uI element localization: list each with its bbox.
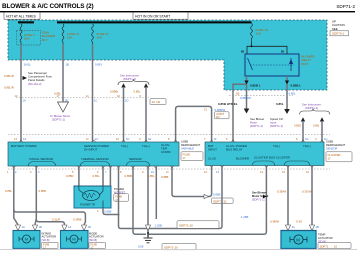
wire from fuse F1 down bbox=[20, 45, 22, 142]
connector label box mid bbox=[215, 112, 230, 119]
svg-text:[SDP71-1]: [SDP71-1] bbox=[250, 124, 263, 128]
wires module B to actuator 3 bbox=[287, 166, 289, 225]
svg-text:0.85L/R: 0.85L/R bbox=[4, 74, 14, 78]
svg-text:HOT AT ALL TIMES: HOT AT ALL TIMES bbox=[6, 14, 37, 18]
svg-text:BOX: BOX bbox=[302, 62, 308, 66]
svg-text:0.85L: 0.85L bbox=[276, 102, 284, 106]
relay leg left with branch bbox=[233, 76, 247, 142]
svg-text:1D: 1D bbox=[216, 115, 220, 119]
svg-text:5V INPUT: 5V INPUT bbox=[84, 148, 98, 152]
intake actuator 1 (motor M1) bbox=[13, 231, 40, 249]
svg-text:M: M bbox=[296, 237, 300, 242]
svg-text:0.85B: 0.85B bbox=[326, 140, 333, 144]
svg-text:0.85B L: 0.85B L bbox=[250, 84, 261, 88]
footer rule bbox=[0, 249, 357, 251]
svg-text:1B: 1B bbox=[39, 225, 42, 229]
svg-text:0.85L: 0.85L bbox=[134, 90, 141, 94]
svg-text:1C: 1C bbox=[94, 99, 97, 103]
svg-text:1C: 1C bbox=[95, 137, 98, 141]
svg-text:REFRIGERANT: REFRIGERANT bbox=[326, 143, 346, 147]
relay U1 (blower relay) bbox=[245, 54, 299, 76]
svg-text:0.85B: 0.85B bbox=[125, 174, 132, 178]
off-page arrow down (right leg) bbox=[284, 109, 290, 114]
relay leg right bbox=[286, 76, 288, 110]
svg-text:0.85Y: 0.85Y bbox=[95, 63, 102, 67]
module B braces bbox=[252, 161, 275, 166]
svg-text:VARIABLE: VARIABLE bbox=[181, 147, 194, 151]
ground wire from module B bbox=[148, 166, 266, 234]
bus bar segment B bbox=[57, 21, 252, 23]
wire module A to ground bus bbox=[133, 166, 146, 234]
connector dashed line main bbox=[16, 97, 149, 99]
svg-text:0.3B/W: 0.3B/W bbox=[270, 220, 280, 224]
pin ticks module tops bbox=[19, 140, 22, 142]
fuse F1 dashed box bbox=[17, 31, 41, 46]
module A braces bbox=[28, 162, 56, 167]
svg-text:1.25B: 1.25B bbox=[241, 215, 248, 219]
power TR to module B wire (T path) bbox=[103, 166, 222, 229]
svg-text:(SDP71-1): (SDP71-1) bbox=[305, 106, 318, 110]
svg-text:0.85R: 0.85R bbox=[39, 189, 46, 193]
fuse F70 bbox=[251, 23, 253, 42]
svg-text:INPUT: INPUT bbox=[208, 148, 217, 152]
svg-text:10: 10 bbox=[334, 244, 338, 248]
svg-text:HOT IN ON OR START: HOT IN ON OR START bbox=[135, 14, 170, 18]
svg-text:[SDP71-1]: [SDP71-1] bbox=[52, 118, 65, 122]
svg-text:0.85B L: 0.85B L bbox=[291, 84, 302, 88]
L wire from relay circuit to modules bbox=[176, 106, 212, 141]
svg-text:REFRIGERANT: REFRIGERANT bbox=[181, 143, 201, 147]
svg-text:BLOWER: BLOWER bbox=[236, 157, 250, 161]
module A (A/C control module left) bbox=[8, 142, 179, 166]
svg-text:1B: 1B bbox=[66, 63, 70, 67]
svg-text:1D: 1D bbox=[125, 99, 128, 103]
svg-text:0.85L: 0.85L bbox=[313, 124, 320, 128]
svg-text:Motor Speed: Motor Speed bbox=[252, 194, 269, 198]
svg-text:(SDP71-1): (SDP71-1) bbox=[123, 77, 136, 81]
svg-text:[SD-B]: [SD-B] bbox=[89, 238, 97, 242]
svg-text:1F: 1F bbox=[214, 137, 217, 141]
ground connector and labels bbox=[145, 225, 150, 231]
wire stub module A bbox=[155, 166, 157, 219]
svg-text:[SDP71-1]: [SDP71-1] bbox=[270, 124, 283, 128]
svg-text:THERMAL SENSOR: THERMAL SENSOR bbox=[81, 157, 110, 161]
svg-text:0.85B HTD EL: 0.85B HTD EL bbox=[218, 102, 238, 106]
svg-text:TH(-): TH(-) bbox=[121, 144, 128, 148]
svg-text:0.85L: 0.85L bbox=[5, 189, 12, 193]
junction dot bbox=[118, 214, 120, 216]
svg-text:[SD-B]: [SD-B] bbox=[42, 238, 50, 242]
wire from fuse F2 down bbox=[62, 44, 64, 102]
svg-text:0.85B/W: 0.85B/W bbox=[240, 96, 251, 100]
svg-text:BATTERY POWER: BATTERY POWER bbox=[11, 144, 38, 148]
wire from fuse F3 down bbox=[92, 44, 94, 142]
svg-text:BLOWER & A/C CONTROLS (2): BLOWER & A/C CONTROLS (2) bbox=[2, 3, 94, 10]
intake actuator 2 pins bbox=[62, 225, 67, 231]
svg-text:0.85R: 0.85R bbox=[66, 174, 73, 178]
svg-text:M: M bbox=[72, 237, 75, 242]
label HOT IN ON OR START bbox=[133, 12, 188, 19]
ground symbol G bbox=[147, 234, 149, 238]
intake actuator 2 (motor M2) bbox=[61, 231, 89, 249]
dashed connector line above modules bbox=[8, 134, 330, 136]
svg-text:0.3R/B: 0.3R/B bbox=[73, 218, 82, 222]
svg-text:SDP71-10: SDP71-10 bbox=[179, 223, 193, 227]
off-page triangle to blower motor bbox=[58, 102, 69, 112]
svg-text:POWER TR: POWER TR bbox=[80, 203, 95, 207]
svg-text:0.85B: 0.85B bbox=[161, 175, 168, 179]
bus bar segment A bbox=[18, 21, 34, 23]
svg-text:0.85Br: 0.85Br bbox=[110, 90, 118, 94]
wire module A to ground bbox=[147, 166, 149, 237]
svg-text:SDP71: SDP71 bbox=[320, 244, 329, 248]
svg-text:10A: 10A bbox=[24, 37, 29, 41]
see passenger compartment note bbox=[23, 76, 28, 80]
svg-text:1A: 1A bbox=[292, 225, 295, 229]
svg-text:17: 17 bbox=[183, 156, 187, 160]
power transistor box bbox=[74, 186, 111, 208]
svg-text:86: 86 bbox=[241, 50, 244, 54]
svg-text:[SD-110-2]: [SD-110-2] bbox=[28, 82, 42, 86]
svg-text:1B: 1B bbox=[316, 225, 319, 229]
wire module A to power TR collector bbox=[102, 166, 104, 186]
svg-text:0.3G/W: 0.3G/W bbox=[302, 190, 312, 194]
svg-text:1A: 1A bbox=[23, 99, 26, 103]
connector dashed line C (relay area) bbox=[229, 94, 293, 96]
off-page arrow down (left leg) bbox=[244, 109, 250, 114]
wire up arrow to module B pin 2 bbox=[320, 117, 324, 121]
svg-text:0.3L/R: 0.3L/R bbox=[52, 218, 60, 222]
svg-text:0.3G: 0.3G bbox=[296, 220, 302, 224]
svg-text:0.85L: 0.85L bbox=[93, 174, 100, 178]
fuse F3 bbox=[92, 24, 94, 44]
svg-text:COMM: COMM bbox=[161, 150, 171, 154]
wire module A to intake motor 1 pin 2 bbox=[35, 166, 36, 225]
svg-text:TH(-): TH(-) bbox=[273, 144, 280, 148]
wire fuse70 to relay bbox=[247, 42, 287, 54]
wire module A to power TR top right bbox=[109, 166, 111, 186]
svg-text:10A: 10A bbox=[97, 36, 102, 40]
junction marks on legs bbox=[244, 81, 248, 85]
svg-text:G28: G28 bbox=[138, 245, 144, 249]
junction block region (cyan) bbox=[8, 20, 327, 90]
svg-text:RLY: RLY bbox=[42, 38, 48, 42]
svg-text:[SDP71-1]: [SDP71-1] bbox=[252, 198, 265, 202]
svg-text:1C 1D: 1C 1D bbox=[152, 100, 161, 104]
module B (A/C control module right) bbox=[205, 142, 324, 166]
svg-text:VISUAL SENSOR: VISUAL SENSOR bbox=[29, 157, 54, 161]
wire up arrow to module B pin 1 bbox=[301, 117, 305, 121]
wire module A to power TR gate bbox=[78, 166, 80, 186]
pin ticks module bottoms bbox=[12, 166, 15, 168]
svg-text:TH(+): TH(+) bbox=[303, 144, 311, 148]
svg-text:0.85G: 0.85G bbox=[294, 124, 301, 128]
connector on bridge bbox=[204, 194, 209, 198]
svg-text:M: M bbox=[25, 237, 28, 242]
svg-text:1G: 1G bbox=[305, 137, 308, 141]
svg-text:17: 17 bbox=[328, 157, 332, 161]
svg-text:CLUSTER BUS CLUSTER: CLUSTER BUS CLUSTER bbox=[254, 156, 291, 160]
svg-text:1A: 1A bbox=[68, 225, 71, 229]
svg-text:1D: 1D bbox=[126, 137, 129, 141]
svg-text:1A: 1A bbox=[23, 137, 26, 141]
svg-text:1B: 1B bbox=[88, 225, 91, 229]
dashed connector line below modules bbox=[8, 168, 330, 170]
svg-text:1A: 1A bbox=[22, 225, 25, 229]
svg-text:SENSOR: SENSOR bbox=[129, 157, 143, 161]
svg-text:SDP71-10: SDP71-10 bbox=[164, 245, 178, 249]
svg-text:TEMP: TEMP bbox=[318, 233, 326, 237]
svg-text:CLUS.: CLUS. bbox=[208, 157, 217, 161]
connector label box bbox=[150, 99, 166, 105]
wire with up arrow A bbox=[121, 83, 125, 87]
svg-text:SDP71-11: SDP71-11 bbox=[213, 199, 227, 203]
svg-text:15A: 15A bbox=[256, 32, 261, 36]
svg-text:0.85L: 0.85L bbox=[148, 174, 155, 178]
wire branch across to actuator 2 pin 1 (H2) bbox=[36, 219, 64, 225]
svg-text:SDP71-2: SDP71-2 bbox=[336, 4, 355, 9]
svg-text:85: 85 bbox=[281, 50, 284, 54]
svg-text:0.85B: 0.85B bbox=[181, 140, 188, 144]
svg-text:SEE: SEE bbox=[332, 27, 338, 31]
label HOT AT ALL TIMES bbox=[4, 12, 40, 19]
svg-text:ACTUATOR: ACTUATOR bbox=[318, 236, 333, 240]
svg-text:0.85B: 0.85B bbox=[213, 192, 220, 196]
power transistor symbol bbox=[83, 191, 100, 201]
svg-text:1E: 1E bbox=[148, 137, 151, 141]
svg-text:1A/1L: 1A/1L bbox=[24, 63, 32, 67]
svg-text:0.85L: 0.85L bbox=[289, 92, 296, 96]
svg-text:0.85B: 0.85B bbox=[104, 210, 111, 214]
svg-text:0.3B/W: 0.3B/W bbox=[277, 190, 287, 194]
svg-text:SENSOR: SENSOR bbox=[326, 147, 337, 151]
title rule bbox=[0, 11, 355, 12]
svg-text:10A: 10A bbox=[67, 36, 72, 40]
actuator 3 pins bbox=[285, 225, 290, 231]
fuse F1 bbox=[20, 24, 22, 45]
svg-text:1.25B: 1.25B bbox=[155, 224, 162, 228]
wire branch across to actuator 2 pin (H1) bbox=[14, 210, 86, 225]
intake actuator 1 pins bbox=[15, 225, 20, 231]
fuse F2 bbox=[62, 24, 64, 44]
svg-text:BUS RELAY: BUS RELAY bbox=[226, 148, 243, 152]
wire with up arrow B bbox=[144, 83, 148, 87]
svg-text:0.85L/R: 0.85L/R bbox=[4, 86, 14, 90]
bridge wire module A to module B bbox=[172, 166, 212, 197]
wire module A pin to intake motor 1 pin 1 bbox=[14, 166, 18, 225]
svg-text:1B: 1B bbox=[65, 99, 68, 103]
svg-text:TH(+): TH(+) bbox=[142, 144, 150, 148]
svg-text:SDP70-1: SDP70-1 bbox=[332, 32, 345, 36]
temp actuator 3 (motor M3) bbox=[281, 231, 316, 249]
svg-text:See Blower: See Blower bbox=[252, 191, 267, 195]
